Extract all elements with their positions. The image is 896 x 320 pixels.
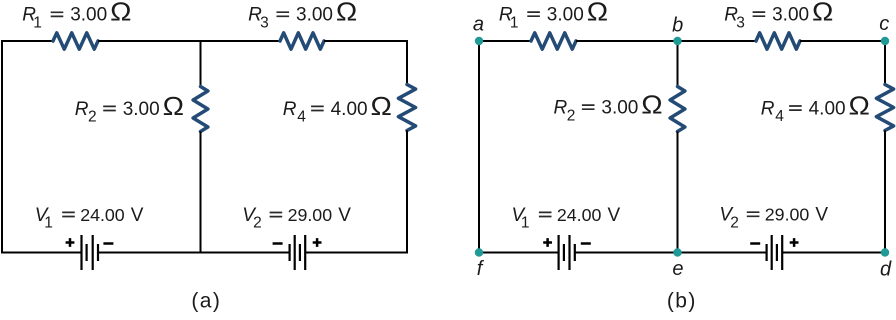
wire: circuit (b) bottom-right segment [782,252,886,254]
wire: circuit (b) bottom-left segment [478,252,559,254]
svg-text:24.00: 24.00 [557,205,602,225]
svg-text:Ω: Ω [641,90,662,119]
svg-text:Ω: Ω [371,91,392,120]
battery V1 (b) minus sign [581,242,591,245]
wire: circuit (a) bottom-left segment [1,252,82,254]
svg-text:V: V [608,205,621,226]
svg-text:3.00: 3.00 [772,5,809,26]
wire: circuit (b) top-left segment [478,40,531,42]
wire: circuit (b) top-right segment [800,40,886,42]
wire: circuit (a) top-middle segment [98,40,280,42]
wire: circuit (b) bottom-middle segment [575,252,767,254]
svg-text:4.00: 4.00 [809,98,846,119]
resistor R3 (a) [280,33,324,49]
svg-text:d: d [880,258,892,280]
svg-text:(a): (a) [191,290,221,313]
battery V1 (a) minus sign [103,242,113,245]
resistor R1 (a) [53,33,98,49]
battery V2 (b) minus sign [750,242,760,245]
battery V1 (b) [557,235,559,270]
svg-text:Ω: Ω [336,0,357,26]
resistor R1 (b) [531,33,576,49]
node c junction dot [881,37,889,45]
wire: circuit (b) right vertical lower [884,131,886,253]
svg-text:R2: R2 [554,98,576,125]
svg-text:R4: R4 [761,98,785,125]
resistor R4 (a) [398,85,415,131]
battery V2 (a) minus sign [273,242,283,245]
svg-text:R1: R1 [499,5,519,32]
resistor R2 (b) [670,87,685,132]
svg-text:R3: R3 [248,5,269,32]
svg-text:b: b [672,14,683,36]
svg-text:3.00: 3.00 [547,5,584,26]
resistor R4 (b) [876,85,893,131]
resistor R3 (b) [756,33,800,49]
svg-text:V: V [338,205,351,226]
battery V2 (b) [765,244,767,261]
svg-text:(b): (b) [667,290,697,313]
svg-text:Ω: Ω [110,0,131,26]
svg-text:V2: V2 [242,205,262,232]
svg-text:c: c [879,13,889,35]
svg-text:Ω: Ω [849,91,870,120]
wire: circuit (a) bottom-right segment [305,252,408,254]
svg-text:4.00: 4.00 [331,99,368,120]
node a junction dot [475,37,483,45]
svg-text:Ω: Ω [587,0,608,26]
svg-text:3.00: 3.00 [123,99,160,120]
svg-text:V: V [131,205,144,226]
node f junction dot [475,248,483,256]
svg-text:Ω: Ω [163,91,184,120]
wire: circuit (a) left vertical [1,40,3,253]
wire: circuit (a) middle vertical lower [200,132,202,253]
node e junction dot [673,248,681,256]
wire: circuit (a) top-left segment [1,40,53,42]
svg-text:R3: R3 [724,5,745,32]
svg-text:V1: V1 [35,205,53,232]
svg-text:a: a [473,14,484,36]
wire: circuit (a) middle vertical upper [200,41,202,87]
battery V2 (a) plus sign [313,238,322,247]
svg-text:V1: V1 [512,205,530,232]
resistor R2 (a) [193,87,208,132]
svg-text:R4: R4 [283,99,307,126]
wire: circuit (a) right vertical upper [406,40,408,85]
battery V2 (a) [289,244,291,261]
svg-text:29.00: 29.00 [288,205,333,225]
wire: circuit (a) bottom-middle segment [98,252,290,254]
battery V2 (b) plus sign [790,238,799,247]
wire: circuit (b) top-middle segment [576,40,756,42]
wire: circuit (b) middle vertical lower [677,132,679,253]
svg-text:Ω: Ω [812,0,833,26]
wire: circuit (b) middle vertical upper [677,41,679,87]
battery V1 (a) plus sign [66,238,75,247]
wire: circuit (b) left vertical [478,40,480,253]
svg-text:3.00: 3.00 [601,98,638,119]
wire: circuit (a) top-right segment [324,40,408,42]
node d junction dot [881,248,889,256]
wire: circuit (b) right vertical upper [884,40,886,85]
svg-text:V: V [815,205,828,226]
svg-text:R2: R2 [75,99,97,126]
svg-text:24.00: 24.00 [80,205,125,225]
battery V1 (a) [80,235,82,270]
svg-text:29.00: 29.00 [765,205,810,225]
svg-text:e: e [672,258,683,280]
wire: circuit (a) right vertical lower [406,131,408,253]
node b junction dot [673,37,681,45]
svg-text:V2: V2 [719,205,739,232]
svg-text:f: f [477,258,485,280]
svg-text:R1: R1 [22,5,42,32]
battery V1 (b) plus sign [543,238,552,247]
svg-text:3.00: 3.00 [70,5,107,26]
svg-text:3.00: 3.00 [296,5,333,26]
